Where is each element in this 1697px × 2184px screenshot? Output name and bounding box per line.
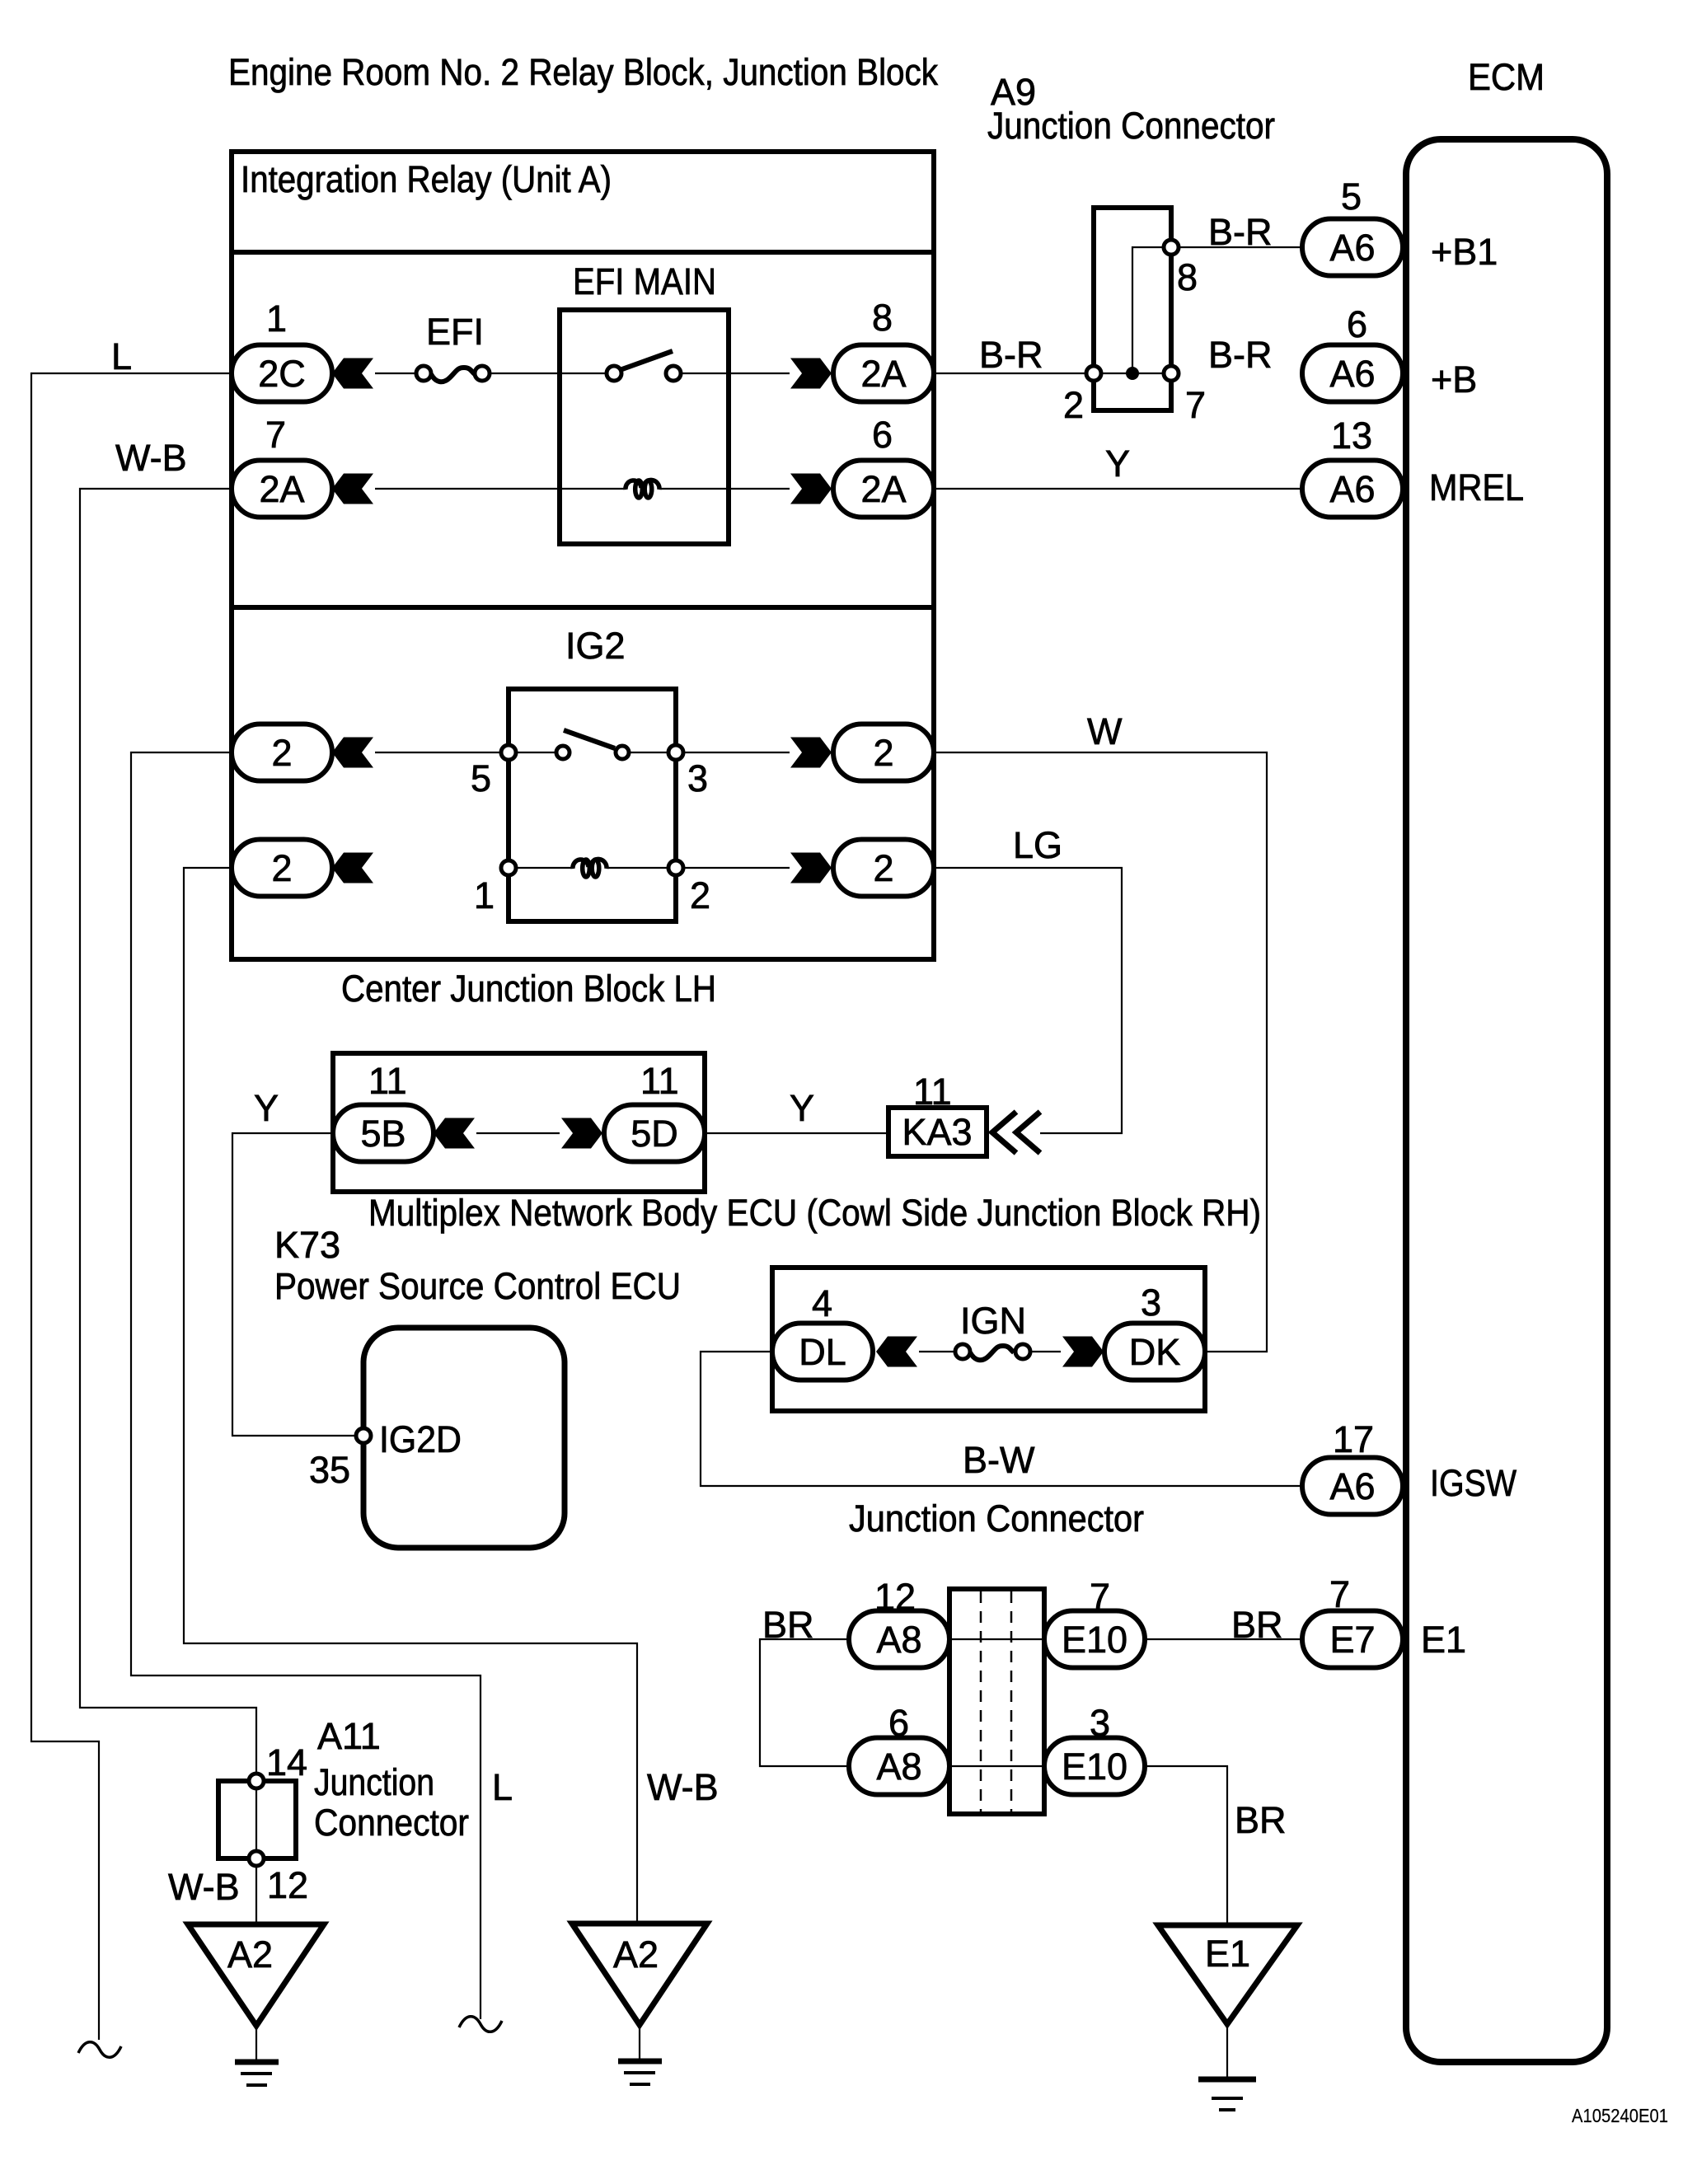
- svg-text:2: 2: [1063, 384, 1084, 426]
- connector oval A8 pin 6: [849, 1702, 949, 1795]
- svg-text:Junction Connector: Junction Connector: [849, 1497, 1144, 1540]
- svg-text:17: 17: [1333, 1418, 1374, 1460]
- ECU block: Multiplex Network Body ECU box: [333, 1053, 1261, 1234]
- wire W-B from IG2 coil oval to right A2 ground: [184, 868, 719, 1924]
- ECU K73 Power Source Control ECU: [274, 1224, 681, 1548]
- svg-text:13: 13: [1331, 415, 1372, 457]
- svg-text:KA3: KA3: [902, 1111, 972, 1153]
- connector oval 2A pin 7: [232, 414, 332, 518]
- wire row1: fuse to EFI MAIN: [490, 373, 562, 374]
- svg-text:Multiplex Network Body ECU (Co: Multiplex Network Body ECU (Cowl Side Ju…: [368, 1192, 1261, 1234]
- svg-text:2: 2: [271, 847, 292, 889]
- svg-text:B-R: B-R: [1208, 334, 1273, 376]
- svg-text:Center Junction Block LH: Center Junction Block LH: [341, 968, 716, 1010]
- connector oval 2 row4 right: [833, 840, 934, 897]
- svg-text:DL: DL: [799, 1331, 846, 1373]
- svg-text:+B1: +B1: [1431, 231, 1498, 273]
- svg-text:BR: BR: [1235, 1799, 1287, 1841]
- svg-text:DK: DK: [1129, 1331, 1181, 1373]
- svg-text:8: 8: [872, 297, 893, 339]
- svg-text:W-B: W-B: [168, 1866, 240, 1908]
- relay IG2 coil: [516, 859, 668, 877]
- relay IG2 pin 3: [668, 745, 708, 799]
- svg-text:6: 6: [872, 414, 893, 456]
- svg-text:IG2D: IG2D: [379, 1418, 462, 1460]
- svg-text:6: 6: [1347, 303, 1367, 345]
- wire LG from oval 2 to KA3 chevron: [934, 824, 1122, 1133]
- connector oval 2A pin 6 right: [833, 414, 934, 518]
- svg-text:14: 14: [266, 1741, 307, 1783]
- svg-text:A11: A11: [317, 1715, 381, 1757]
- svg-text:K73: K73: [274, 1224, 340, 1266]
- svg-text:12: 12: [874, 1576, 916, 1618]
- svg-text:11: 11: [913, 1071, 952, 1113]
- svg-text:Y: Y: [790, 1087, 814, 1129]
- wire from IG2 row oval to L tilde bottom: [131, 752, 513, 2019]
- wire row4: IG2 pin 2 to arrow: [683, 867, 790, 869]
- svg-text:4: 4: [812, 1282, 832, 1324]
- connector oval 2 row3 left: [232, 724, 332, 781]
- arrow right 5D: [561, 1118, 602, 1149]
- ECM box: [1406, 139, 1607, 2062]
- wire row2: EFI MAIN to arrow: [731, 488, 790, 490]
- wire between 5B 5D arrows: [476, 1132, 560, 1134]
- connector oval E10 pin 3: [1044, 1702, 1145, 1795]
- wire through junction row2: [949, 1765, 1044, 1767]
- svg-text:A6: A6: [1329, 468, 1375, 510]
- wire W-B from A11 pin 12 to A2 ground: [168, 1866, 256, 1924]
- svg-text:5: 5: [471, 757, 491, 799]
- svg-text:B-R: B-R: [979, 334, 1043, 376]
- svg-text:3: 3: [1141, 1282, 1161, 1324]
- svg-text:5: 5: [1341, 176, 1362, 218]
- svg-text:EFI: EFI: [426, 311, 484, 353]
- ECM pin oval A6 pin 5 +B1: [1302, 176, 1498, 276]
- arrow right row1: [790, 359, 832, 389]
- connector oval 5D pin 11: [604, 1060, 705, 1162]
- connector oval A8 pin 12: [849, 1576, 949, 1668]
- connector oval 2 row3 right: [833, 724, 934, 781]
- connector oval 5B pin 11: [333, 1060, 434, 1162]
- svg-text:A6: A6: [1329, 1465, 1375, 1507]
- arrow right row4: [790, 853, 832, 883]
- svg-text:EFI MAIN: EFI MAIN: [573, 260, 716, 302]
- svg-text:E10: E10: [1062, 1619, 1127, 1661]
- fuse EFI: [416, 311, 490, 382]
- wire IGN arrow to fuse: [919, 1351, 955, 1352]
- svg-text:W: W: [1087, 710, 1123, 752]
- wire B-R from A9 pin 7 to ECM +B: [1208, 334, 1273, 376]
- junction block: Center Junction Block LH box: [232, 607, 934, 1010]
- tilde break on wire L: [78, 2042, 121, 2058]
- relay EFI MAIN switch contacts: [562, 351, 726, 381]
- svg-text:+B: +B: [1431, 359, 1477, 401]
- svg-text:L: L: [111, 335, 132, 377]
- arrow right row3: [790, 738, 832, 768]
- relay block: Integration Relay (Unit A) box: [232, 152, 934, 607]
- connector A9 label: [987, 71, 1275, 147]
- svg-text:35: 35: [309, 1449, 350, 1491]
- svg-text:BR: BR: [762, 1604, 814, 1646]
- svg-text:2A: 2A: [860, 353, 906, 395]
- wire W-B from pin 7 2A to A11 pin 14: [80, 437, 256, 1774]
- ECM pin oval E7 pin 7 E1: [1302, 1573, 1466, 1668]
- svg-text:E1: E1: [1421, 1619, 1466, 1661]
- arrow left row2: [332, 474, 373, 504]
- relay IG2 box: [509, 625, 676, 921]
- svg-text:8: 8: [1177, 256, 1198, 298]
- svg-text:1: 1: [474, 874, 495, 916]
- wire BR loop A8 pin 12 to A8 pin 6: [760, 1604, 849, 1766]
- svg-text:Y: Y: [1105, 443, 1130, 485]
- svg-text:A2: A2: [613, 1933, 659, 1975]
- ECM pin oval A6 pin 13 MREL: [1302, 415, 1524, 518]
- junction A11 pin 14: [249, 1741, 307, 1788]
- arrow left IGN: [876, 1337, 917, 1367]
- svg-text:A8: A8: [876, 1746, 921, 1788]
- relay IG2 pin 2: [668, 860, 710, 916]
- ground A2 left: [188, 1924, 324, 2085]
- wire row1: EFI MAIN to arrow: [731, 373, 790, 374]
- double chevron at KA3: [992, 1112, 1040, 1153]
- arrow left 5B: [434, 1118, 475, 1149]
- arrow right IGN: [1062, 1337, 1104, 1367]
- svg-text:A2: A2: [227, 1933, 273, 1975]
- wire row1: EFI fuse feed: [375, 373, 416, 374]
- connector oval 2C pin 1: [232, 298, 332, 402]
- svg-text:A8: A8: [876, 1619, 921, 1661]
- ground A2 right: [572, 1924, 707, 2084]
- wire B-R from A9 pin 8 to ECM +B1: [1179, 211, 1302, 253]
- connector oval E10 pin 7: [1044, 1576, 1145, 1668]
- svg-text:11: 11: [368, 1060, 407, 1102]
- wire Y from 5B to power source control ECU IG2D: [232, 1087, 356, 1436]
- arrow left row1: [332, 359, 373, 389]
- wire Y from 2A pin 6 to ECM MREL: [934, 443, 1302, 489]
- svg-text:2: 2: [873, 732, 893, 774]
- wire row2: arrow to EFI MAIN: [375, 488, 560, 490]
- junction A9 internal dot: [1126, 367, 1139, 380]
- svg-text:ECM: ECM: [1468, 56, 1545, 98]
- ECM pin oval A6 pin 6 +B: [1302, 303, 1477, 402]
- ground E1: [1158, 1925, 1297, 2110]
- svg-text:Power Source Control ECU: Power Source Control ECU: [274, 1265, 681, 1307]
- svg-text:A6: A6: [1329, 227, 1375, 269]
- relay IG2 switch: [516, 730, 668, 759]
- svg-text:E10: E10: [1062, 1746, 1127, 1788]
- svg-text:1: 1: [266, 298, 287, 340]
- svg-text:7: 7: [1090, 1576, 1110, 1618]
- svg-text:5D: 5D: [631, 1113, 678, 1155]
- svg-text:W-B: W-B: [115, 437, 187, 479]
- svg-text:3: 3: [1090, 1702, 1110, 1744]
- junction A9 pin 8: [1164, 240, 1198, 298]
- svg-text:E7: E7: [1329, 1619, 1375, 1661]
- svg-text:L: L: [492, 1766, 513, 1808]
- svg-text:6: 6: [888, 1702, 909, 1744]
- connector oval 2A pin 8 right: [833, 297, 934, 402]
- arrow right row2: [790, 474, 832, 504]
- svg-text:Junction: Junction: [314, 1761, 434, 1803]
- svg-text:BR: BR: [1231, 1604, 1283, 1646]
- fuse block IGN box: [772, 1268, 1205, 1411]
- junction connector A9 body: [1094, 208, 1171, 410]
- svg-text:W-B: W-B: [647, 1766, 719, 1808]
- wire BR from E10 pin 3 to E1 ground: [1145, 1766, 1287, 1925]
- wire row3: arrow to IG2 pin 5: [375, 752, 501, 753]
- svg-text:E1: E1: [1205, 1933, 1250, 1975]
- wire L from pin 1 2C to bottom tilde: [31, 335, 232, 2040]
- svg-text:11: 11: [640, 1060, 679, 1102]
- relay EFI MAIN: [560, 260, 729, 544]
- svg-text:2C: 2C: [258, 353, 306, 395]
- junction A11 pin 12: [249, 1851, 308, 1906]
- junction connector A11 body: [218, 1715, 469, 1858]
- wire B-W from DL to ECM IGSW: [701, 1352, 1302, 1486]
- svg-text:A105240E01: A105240E01: [1572, 2105, 1668, 2126]
- svg-text:2: 2: [873, 847, 893, 889]
- junction A9 pin 2: [1063, 366, 1101, 426]
- wire B-R from 2A pin 8 to A9 pin 2: [934, 334, 1086, 376]
- connector oval DL pin 4: [772, 1282, 873, 1380]
- svg-text:A6: A6: [1329, 353, 1375, 395]
- svg-text:Engine Room No. 2 Relay Block,: Engine Room No. 2 Relay Block, Junction …: [228, 51, 938, 93]
- connector oval 2 row4 left: [232, 840, 332, 897]
- arrow left row4: [332, 853, 373, 883]
- relay IG2 pin 1: [474, 860, 516, 916]
- svg-text:IG2: IG2: [565, 625, 626, 667]
- svg-text:B-W: B-W: [963, 1439, 1035, 1481]
- wire BR from E10 pin 7 to E7: [1145, 1604, 1302, 1646]
- wire row3: IG2 pin 3 to arrow: [683, 752, 790, 753]
- svg-text:LG: LG: [1013, 824, 1062, 866]
- svg-text:3: 3: [687, 757, 708, 799]
- svg-text:B-R: B-R: [1208, 211, 1273, 253]
- svg-text:5B: 5B: [360, 1113, 405, 1155]
- svg-text:7: 7: [265, 414, 286, 456]
- tilde break on bottom L wire: [459, 2017, 502, 2032]
- wire Y from 5D to KA3: [705, 1087, 888, 1133]
- K73 pin 35 IG2D: [309, 1418, 462, 1491]
- connector oval DK pin 3: [1104, 1282, 1205, 1380]
- svg-text:2A: 2A: [860, 468, 906, 510]
- svg-text:Connector: Connector: [314, 1802, 469, 1844]
- relay EFI MAIN coil: [562, 480, 726, 498]
- junction A9 pin 7: [1164, 366, 1206, 426]
- wire W from oval 2 to fuse IGN DK: [934, 710, 1267, 1352]
- ECM pin oval A6 pin 17 IGSW: [1302, 1418, 1517, 1515]
- junction block A8/E10 body with dashed splice lines: [949, 1589, 1044, 1814]
- svg-text:IGN: IGN: [960, 1300, 1026, 1342]
- svg-text:7: 7: [1329, 1573, 1350, 1615]
- wire IGN fuse to arrow: [1030, 1351, 1061, 1352]
- arrow left row3: [332, 738, 373, 768]
- relay IG2 pin 5: [471, 745, 516, 799]
- svg-text:7: 7: [1185, 384, 1206, 426]
- connector KA3 pin 11: [888, 1071, 987, 1156]
- svg-text:MREL: MREL: [1429, 466, 1524, 509]
- svg-text:2: 2: [271, 732, 292, 774]
- svg-text:IGSW: IGSW: [1430, 1462, 1517, 1504]
- wire through junction row1: [949, 1638, 1044, 1640]
- svg-text:2A: 2A: [259, 468, 304, 510]
- svg-text:Integration Relay (Unit A): Integration Relay (Unit A): [241, 158, 612, 200]
- svg-text:Junction Connector: Junction Connector: [987, 105, 1275, 147]
- svg-text:Y: Y: [254, 1087, 279, 1129]
- svg-text:2: 2: [690, 874, 710, 916]
- fuse IGN: [955, 1300, 1030, 1360]
- svg-text:12: 12: [267, 1864, 308, 1906]
